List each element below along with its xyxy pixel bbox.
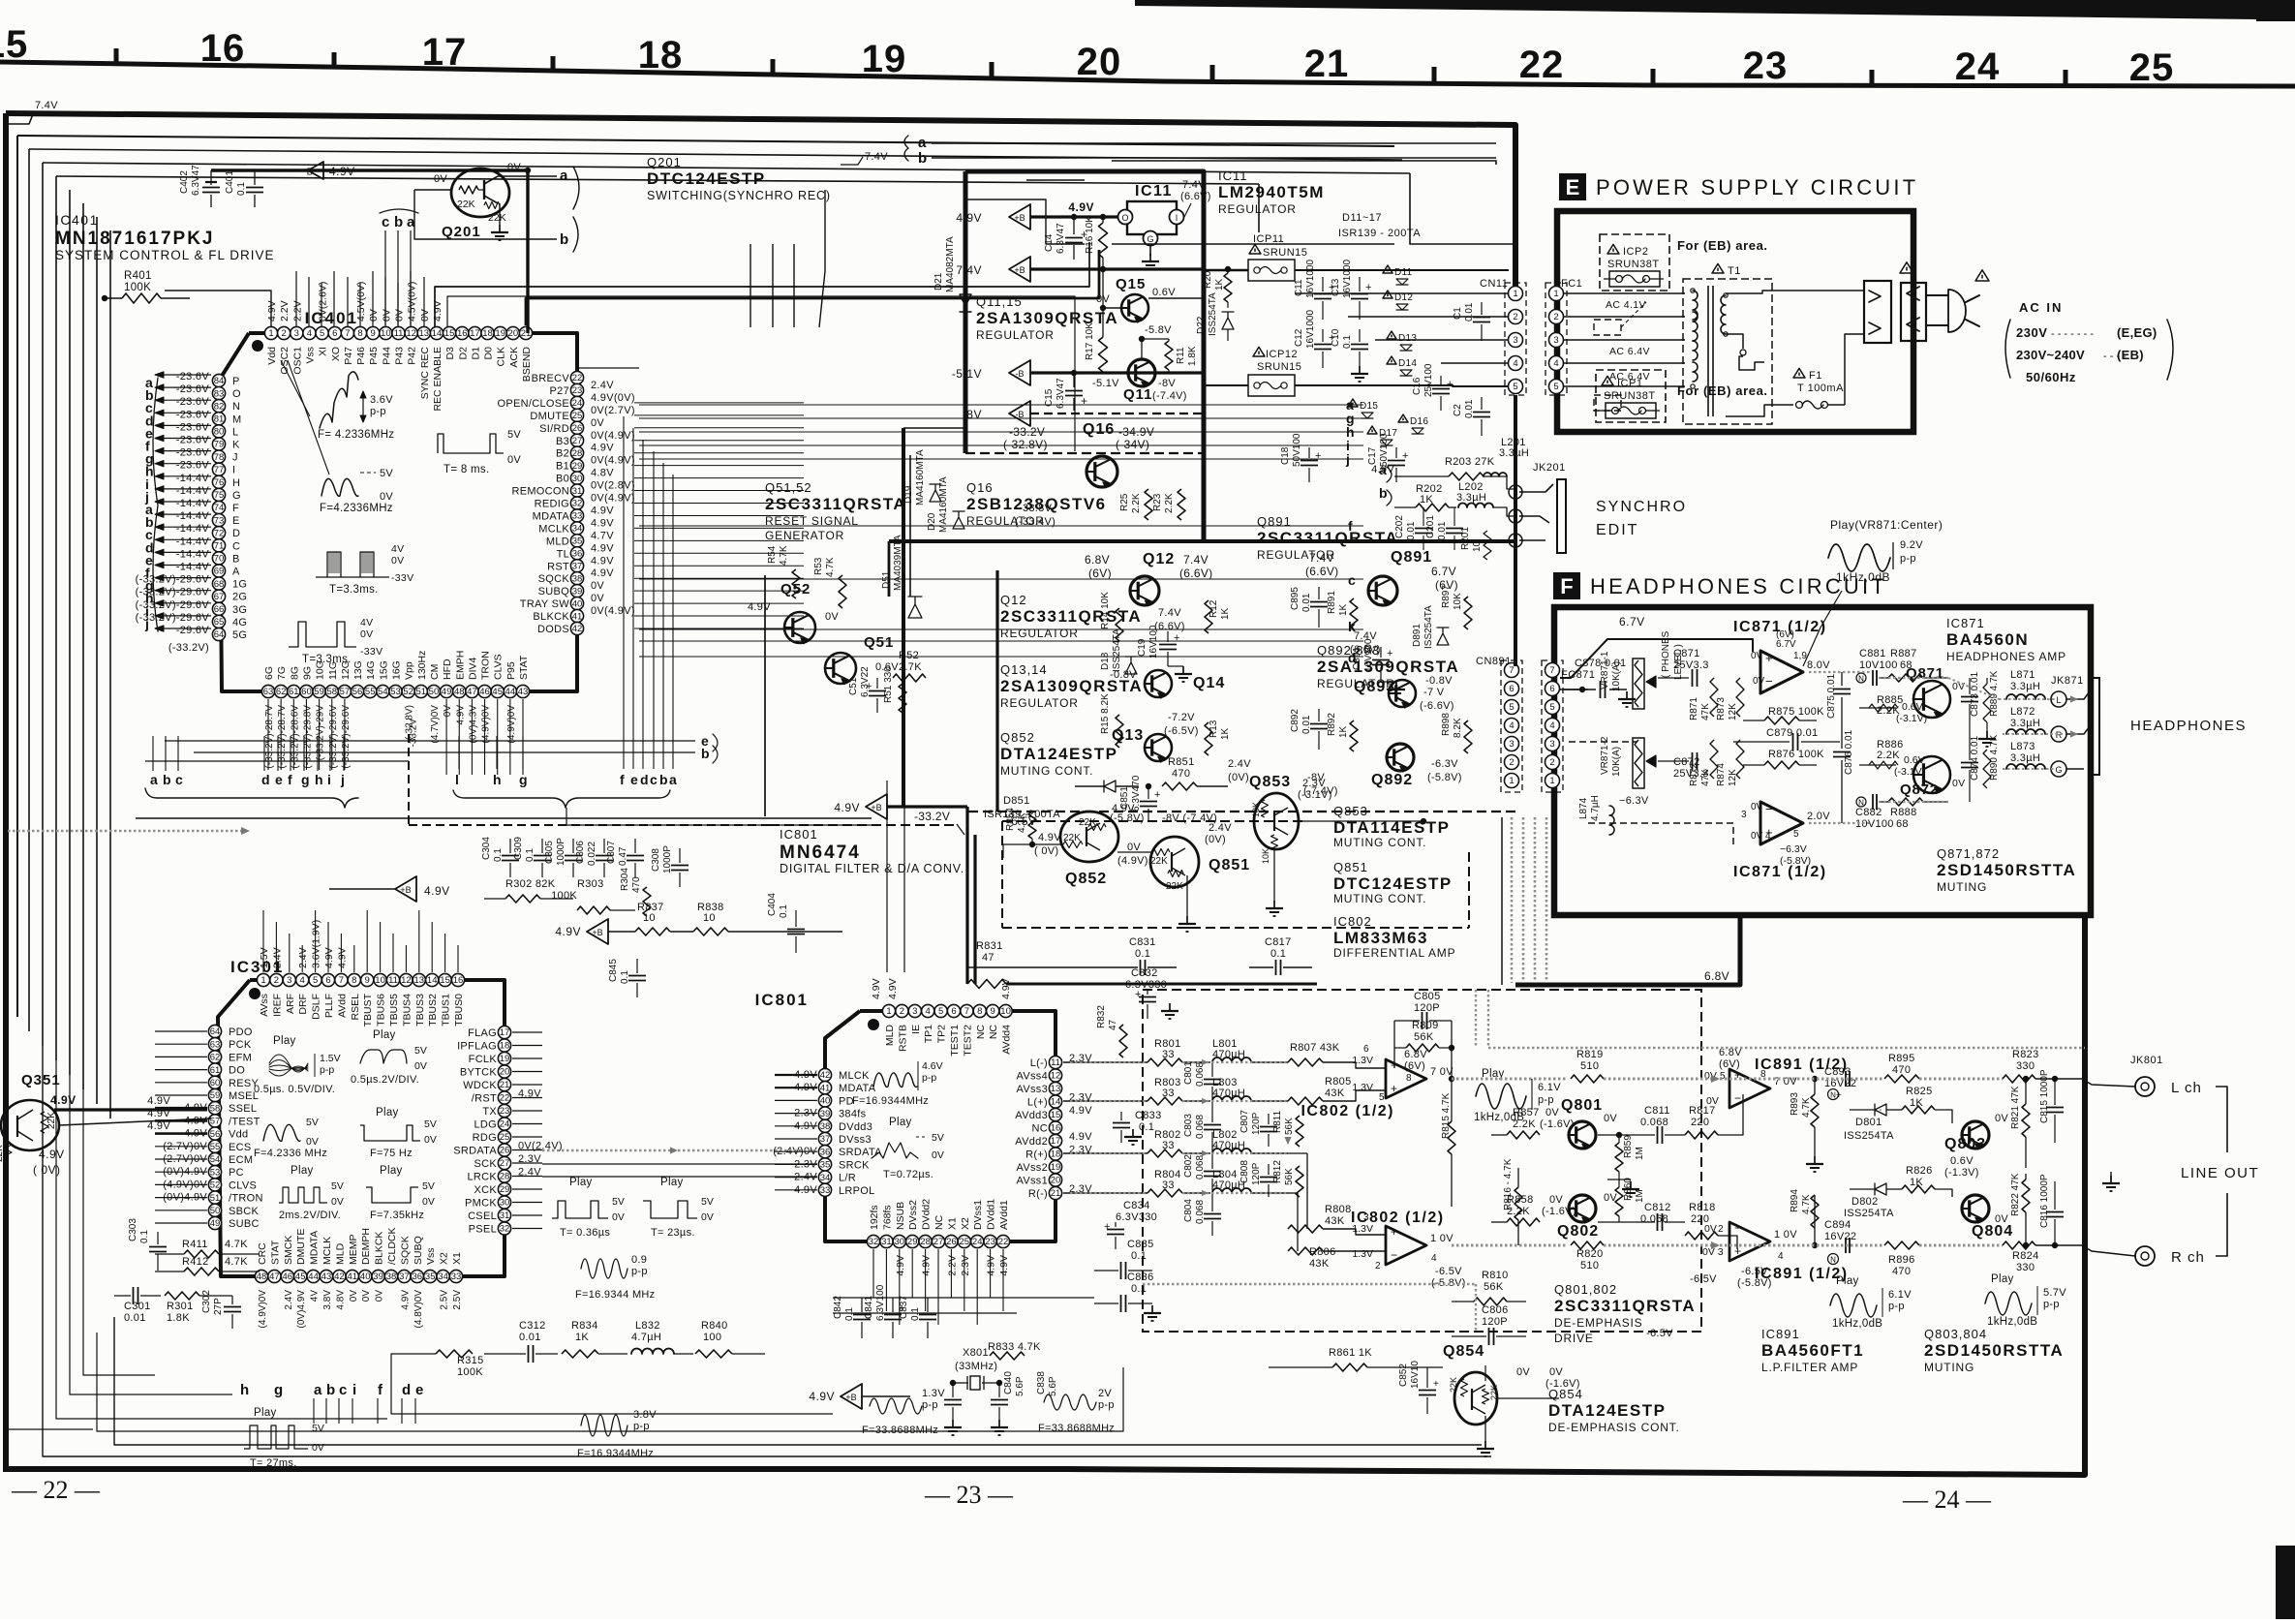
svg-text:5V: 5V [380,468,393,479]
svg-text:17: 17 [500,1027,510,1038]
svg-text:b: b [918,150,927,167]
svg-text:5V: 5V [612,1196,625,1208]
svg-text:55: 55 [365,687,376,697]
svg-text:R894: R894 [1790,1189,1800,1212]
svg-text:10K(A): 10K(A) [1611,661,1622,691]
svg-text:NC: NC [933,1214,945,1230]
svg-text:- - - - - - -: - - - - - - - [2051,328,2094,340]
svg-text:Play: Play [380,1165,403,1177]
svg-text:/CLDCK: /CLDCK [386,1227,398,1265]
svg-text:IC891: IC891 [1761,1327,1800,1341]
IC401 waveform sawtooth 4.2336MHz [320,372,358,428]
svg-text:MA4082MTA: MA4082MTA [945,236,956,292]
svg-text:F=4.2336 MHz: F=4.2336 MHz [254,1148,327,1159]
svg-text:3.3µH: 3.3µH [1499,447,1529,459]
svg-text:R876 100K: R876 100K [1768,749,1824,760]
svg-text:17: 17 [1051,1136,1061,1147]
svg-text:R887: R887 [1890,648,1917,659]
svg-text:C312: C312 [519,1320,546,1332]
svg-text:C873 0.01: C873 0.01 [1970,671,1980,717]
svg-text:0V: 0V [591,593,604,604]
svg-text:WDCK: WDCK [463,1080,497,1091]
svg-text:41: 41 [820,1083,831,1093]
svg-text:61: 61 [210,1065,221,1076]
svg-text:B0: B0 [556,474,569,485]
svg-text:LRCK: LRCK [467,1172,497,1183]
svg-text:Q891: Q891 [1257,514,1292,529]
svg-text:5: 5 [1549,702,1554,713]
svg-text:Play: Play [1991,1273,2014,1285]
svg-text:-7 V: -7 V [1423,687,1445,698]
svg-text:-14.4V: -14.4V [176,536,210,547]
svg-text:R811: R811 [1272,1110,1283,1133]
svg-text:R14 10K: R14 10K [1100,592,1111,629]
svg-text:-14.4V: -14.4V [176,562,210,573]
svg-text:D0: D0 [483,347,495,360]
svg-text:0.6V: 0.6V [1152,287,1176,298]
svg-text:30: 30 [572,474,583,484]
gnd between line jacks [2110,1172,2112,1180]
IC401 top pins [264,326,277,339]
svg-text:TX: TX [482,1106,497,1118]
svg-text:14: 14 [432,328,443,339]
fuse ICP12 [1253,347,1265,356]
svg-text:(-3.1V): (-3.1V) [1298,789,1332,801]
svg-text:10: 10 [375,975,385,986]
svg-text:2SD1450RSTTA: 2SD1450RSTTA [1924,1341,2064,1360]
svg-text:(4.9V)0V: (4.9V)0V [258,1290,268,1329]
op-amp IC891 top [1729,1069,1770,1108]
thermal switch [1739,356,1764,370]
svg-text:0V: 0V [1753,676,1765,687]
svg-text:R302 82K: R302 82K [505,878,556,890]
svg-text:2.4V: 2.4V [284,1290,294,1310]
svg-text:-14.4V: -14.4V [176,498,210,509]
svg-text:B1: B1 [556,461,569,473]
svg-text:D22: D22 [1196,316,1207,334]
svg-text:Vss: Vss [425,1247,437,1265]
svg-text:R809: R809 [1412,1020,1439,1031]
svg-text:R ch: R ch [2171,1249,2205,1266]
svg-text:SYNC REC: SYNC REC [419,347,431,400]
svg-text:13: 13 [419,328,430,339]
svg-text:O: O [1121,213,1128,223]
svg-text:470: 470 [631,876,642,893]
diode D13 [1387,331,1396,339]
svg-text:43: 43 [518,687,529,697]
svg-text:15: 15 [444,328,455,339]
svg-text:1M: 1M [1635,1147,1645,1160]
svg-text:1M: 1M [1635,1189,1645,1203]
svg-text:REGULATOR: REGULATOR [1000,627,1079,640]
svg-text:6.7V: 6.7V [1776,639,1796,650]
small dashed relay box upper [1594,320,1621,335]
svg-text:4.7µH: 4.7µH [631,1332,661,1343]
svg-text:LM2940T5M: LM2940T5M [1218,183,1325,201]
wires a b to regulators [1112,161,1496,165]
svg-text:−: − [1391,1058,1397,1072]
svg-text:N: N [1830,1091,1836,1100]
svg-text:1: 1 [1553,289,1558,299]
svg-text:19: 19 [1051,1162,1061,1173]
svg-text:0V: 0V [361,1290,372,1302]
svg-text:2: 2 [1718,1224,1724,1235]
svg-text:16V1000: 16V1000 [1305,310,1316,349]
svg-text:36: 36 [413,1272,423,1282]
svg-text:0.5µs.2V/DIV.: 0.5µs.2V/DIV. [351,1074,419,1086]
svg-text:C842: C842 [833,1296,843,1319]
diode D12 [1383,291,1392,298]
svg-text:D891: D891 [1412,624,1423,647]
svg-text:— 24 —: — 24 — [1902,1486,1992,1514]
svg-text:1 0V: 1 0V [1430,1233,1453,1244]
svg-text:For (EB) area.: For (EB) area. [1677,238,1768,253]
svg-text:80: 80 [214,427,225,438]
wire IC401 pin21 to Q201 bus [526,250,1099,325]
svg-text:0V: 0V [1704,1223,1717,1235]
svg-text:j: j [144,616,149,631]
svg-text:3.6V(1.9V): 3.6V(1.9V) [311,920,322,968]
svg-text:l: l [455,772,459,787]
svg-text:0V: 0V [306,1136,319,1148]
svg-text:43: 43 [321,1272,332,1282]
svg-text:NC: NC [975,1025,987,1040]
svg-text:e: e [630,772,638,787]
svg-text:4: 4 [300,975,305,986]
svg-text:L871: L871 [2010,669,2035,681]
svg-text:0V: 0V [1751,651,1763,661]
svg-text:AVss1: AVss1 [1017,1176,1048,1187]
svg-text:0.6V: 0.6V [1950,1155,1974,1167]
svg-text:4.7K: 4.7K [1801,1097,1812,1118]
svg-text:4.9V: 4.9V [591,555,614,567]
svg-text:R831: R831 [976,940,1003,952]
svg-text:13: 13 [414,975,425,986]
svg-text:N: N [1830,1256,1836,1265]
svg-text:XI: XI [318,347,329,356]
svg-text:0V(2.6V): 0V(2.6V) [318,282,329,322]
IC401 bottom pins [261,685,274,697]
svg-text:61: 61 [289,687,299,697]
svg-text:(6.6V): (6.6V) [1179,567,1212,580]
svg-text:27P: 27P [213,1298,224,1315]
svg-text:C: C [232,540,240,552]
svg-text:(-1.3V): (-1.3V) [1944,1167,1979,1179]
svg-text:R20: R20 [1203,270,1213,289]
svg-text:-0.8V: -0.8V [1425,675,1453,687]
svg-text:SSEL: SSEL [229,1103,257,1115]
left vertical bus wires lower [96,217,98,1104]
svg-text:C801: C801 [1183,1061,1194,1085]
svg-text:Q12: Q12 [1143,551,1175,567]
svg-text:5V: 5V [424,1118,437,1130]
svg-text:IC11: IC11 [1218,169,1248,183]
svg-text:32: 32 [869,1237,879,1247]
thick rail headphones bottom [1515,917,1740,985]
svg-text:-8V: -8V [963,408,982,421]
section E title [1559,173,1586,200]
svg-text:HEADPHONES: HEADPHONES [2130,718,2247,734]
svg-text:15: 15 [1051,1110,1061,1120]
svg-text:45: 45 [295,1272,306,1282]
svg-text:−: − [1765,802,1773,816]
svg-text:Q852: Q852 [1065,871,1107,887]
svg-text:MDATA: MDATA [839,1083,876,1094]
svg-text:+: + [1836,1090,1842,1101]
svg-text:Q13: Q13 [1112,727,1144,744]
svg-text:4.9V: 4.9V [591,505,614,516]
svg-text:(33MHz): (33MHz) [955,1361,997,1372]
svg-text:4.9V: 4.9V [147,1120,170,1132]
svg-text:(6.6V): (6.6V) [1305,565,1338,578]
svg-text:+: + [1433,1379,1439,1390]
svg-text:15: 15 [0,23,28,66]
svg-text:DVss3: DVss3 [839,1134,872,1146]
svg-text:0.068: 0.068 [1640,1213,1668,1225]
svg-text:Q801: Q801 [1561,1097,1603,1114]
svg-text:(-33.2V)-28.6V: (-33.2V)-28.6V [290,705,300,769]
svg-text:SRUN38T: SRUN38T [1607,259,1660,270]
svg-text:7: 7 [1509,665,1514,676]
svg-text:R52: R52 [899,650,919,661]
IC301 waveform sine 4.2336 [263,1124,300,1141]
svg-text:4.9V: 4.9V [323,947,335,968]
svg-text:0.01: 0.01 [1464,302,1475,322]
svg-text:DE-EMPHASIS: DE-EMPHASIS [1554,1316,1642,1330]
svg-text:+B: +B [400,885,411,895]
svg-text:RDG: RDG [473,1132,497,1144]
power wires to transformer [1564,292,1685,294]
svg-text:TBUS0: TBUS0 [453,994,465,1026]
svg-text:IC871: IC871 [1946,616,1985,630]
svg-text:0V: 0V [701,1211,714,1223]
svg-text:IE: IE [910,1025,922,1034]
svg-text:4.9V: 4.9V [1038,832,1061,843]
close wires top right of IC401 [577,367,639,369]
svg-text:6.3V47: 6.3V47 [1056,378,1066,409]
svg-text:TRAY SW: TRAY SW [520,598,570,610]
ruler line [0,62,2295,86]
svg-text:(-6.6V): (-6.6V) [1420,700,1454,712]
vertical wires from letter rows down [152,736,154,771]
svg-text:+: + [1081,394,1087,408]
svg-text:R872: R872 [1689,763,1699,786]
svg-text:0.1: 0.1 [1135,948,1150,960]
svg-text:DIV4: DIV4 [467,657,478,680]
svg-text:53: 53 [390,687,401,697]
svg-text:X2: X2 [439,1252,450,1265]
svg-text:64: 64 [214,629,225,640]
svg-text:R815 4.7K: R815 4.7K [1441,1092,1452,1139]
svg-text:2.3V: 2.3V [960,1255,971,1276]
svg-text:(4.9V)0V: (4.9V)0V [506,705,517,744]
svg-text:22: 22 [998,1237,1009,1247]
svg-text:+: + [1154,789,1160,801]
svg-text:DMUTE: DMUTE [295,1229,307,1265]
svg-text:40: 40 [572,598,583,609]
svg-text:ECS: ECS [229,1142,252,1153]
svg-text:p-p: p-p [1098,1399,1115,1411]
svg-text:0V: 0V [331,1196,344,1208]
svg-text:4.9V: 4.9V [998,1255,1010,1276]
svg-text:29: 29 [500,1184,510,1195]
svg-text:7.4V: 7.4V [956,263,982,277]
svg-text:2.4V: 2.4V [271,947,283,968]
svg-text:330: 330 [2016,1060,2035,1072]
svg-text:4.9V(0V): 4.9V(0V) [591,392,635,404]
svg-text:+: + [1104,1221,1110,1233]
svg-text:1K: 1K [575,1332,589,1343]
svg-text:52: 52 [210,1180,221,1191]
svg-text:2SD1450RSTTA: 2SD1450RSTTA [1937,861,2076,879]
svg-text:22K: 22K [457,199,475,210]
svg-text:41: 41 [572,611,583,622]
svg-text:B3: B3 [556,436,569,447]
svg-text:4G: 4G [232,617,247,628]
svg-text:ARF: ARF [285,994,296,1014]
svg-text:1: 1 [886,1006,891,1017]
svg-text:0V: 0V [1706,1095,1719,1107]
vertical fan to letters fedcba [623,416,625,769]
wire 7.4V right segment [1258,184,1260,232]
stipple feedback columns [1475,990,1477,1048]
svg-text:34: 34 [820,1173,831,1183]
svg-text:ISS254TA: ISS254TA [1844,1130,1894,1142]
svg-text:2V: 2V [1098,1388,1112,1399]
svg-text:T=3.3ms.: T=3.3ms. [329,584,379,596]
svg-text:0.01: 0.01 [519,1332,541,1343]
svg-text:TL: TL [557,548,569,560]
svg-text:4.9V: 4.9V [1371,464,1394,475]
svg-text:T= 0.36µs: T= 0.36µs [560,1227,610,1239]
svg-text:10K: 10K [1261,848,1270,864]
svg-text:R823: R823 [2012,1049,2039,1060]
svg-text:L(-): L(-) [1030,1057,1048,1069]
svg-text:p-p: p-p [631,1266,648,1277]
svg-text:AVss2: AVss2 [1017,1162,1048,1174]
svg-text:EMPH: EMPH [454,651,466,680]
svg-text:/TRON: /TRON [229,1193,263,1205]
fuse ICP1 symbol [1606,403,1656,418]
svg-text:67: 67 [214,592,225,602]
svg-text:22K: 22K [488,212,506,224]
svg-text:MA4160MTA: MA4160MTA [938,476,949,533]
svg-text:CLK: CLK [496,347,507,366]
svg-text:RSTB: RSTB [897,1025,908,1052]
svg-text:C815 1000P: C815 1000P [2039,1069,2050,1123]
svg-text:DRIVE: DRIVE [1554,1332,1594,1345]
svg-text:Q871: Q871 [1906,665,1944,682]
svg-text:R23: R23 [1152,493,1163,511]
transistor Q12 [1130,576,1159,605]
svg-text:AC 6.4V: AC 6.4V [1609,346,1650,357]
svg-text:R53: R53 [813,557,824,575]
bus wire y845 [136,817,872,819]
svg-text:16V10: 16V10 [1410,1361,1421,1389]
svg-text:(-6.5V): (-6.5V) [1164,725,1199,737]
svg-text:C307: C307 [606,841,617,864]
svg-text:65: 65 [214,617,225,628]
svg-text:C816 1000P: C816 1000P [2039,1174,2050,1228]
svg-text:46: 46 [283,1272,293,1282]
svg-text:32: 32 [500,1224,510,1235]
svg-text:C882: C882 [1855,807,1882,818]
svg-text:0.068: 0.068 [1195,1200,1206,1224]
svg-text:9: 9 [371,328,376,339]
svg-text:9G: 9G [301,666,313,680]
svg-text:DTC124ESTP: DTC124ESTP [647,169,766,188]
svg-text:0V(4.9V): 0V(4.9V) [591,430,635,442]
svg-text:384fs: 384fs [839,1109,867,1120]
svg-text:C895: C895 [1290,587,1300,610]
svg-text:Q851: Q851 [1333,860,1368,874]
svg-text:R826: R826 [1906,1165,1933,1177]
svg-text:BA4560FT1: BA4560FT1 [1761,1341,1864,1360]
svg-text:MUTING: MUTING [1924,1361,1974,1374]
svg-text:23: 23 [500,1106,510,1117]
svg-text:Q351: Q351 [21,1072,61,1088]
IC401 bottom wire drops [267,699,269,770]
svg-text:14: 14 [1051,1097,1061,1108]
svg-text:6.3V47: 6.3V47 [191,165,201,196]
svg-text:16: 16 [457,328,468,339]
svg-text:p-p: p-p [320,1064,334,1076]
svg-text:(-1.6V): (-1.6V) [1545,1378,1580,1390]
svg-text:b: b [659,772,668,787]
svg-text:2.2K: 2.2K [1513,1118,1536,1130]
svg-text:TBUS6: TBUS6 [376,994,387,1026]
svg-text:7 0V: 7 0V [1430,1066,1453,1078]
svg-text:DTC124ESTP: DTC124ESTP [1333,874,1453,893]
transformer output wires [1726,291,1803,293]
svg-text:15G: 15G [378,660,389,680]
svg-text:470: 470 [1892,1266,1911,1277]
svg-text:L: L [2056,695,2061,705]
svg-text:6.7V: 6.7V [1619,615,1645,628]
svg-text:R858: R858 [1507,1194,1534,1206]
svg-text:C404: C404 [767,893,778,916]
svg-text:7.4V: 7.4V [1182,179,1206,191]
svg-text:BRECV: BRECV [532,373,570,384]
svg-text:C837: C837 [899,1296,909,1319]
svg-text:20: 20 [1077,41,1122,83]
svg-text:43K: 43K [1309,1258,1330,1270]
svg-text:0V(4.9V): 0V(4.9V) [591,493,635,505]
svg-text:P45: P45 [368,347,380,365]
svg-text:2: 2 [274,975,279,986]
IC301 body outline [218,980,505,1276]
svg-text:R890 4.7K: R890 4.7K [1989,734,2000,781]
svg-text:DIGITAL FILTER & D/A CONV.: DIGITAL FILTER & D/A CONV. [780,862,964,875]
svg-text:D16: D16 [1410,416,1428,427]
svg-text:(0V): (0V) [1205,834,1226,845]
svg-text:21: 21 [1051,1188,1061,1199]
svg-text:4.9V: 4.9V [887,978,899,999]
svg-text:0V 4: 0V 4 [1751,831,1771,842]
svg-text:IREF: IREF [271,994,283,1017]
svg-text:0.01: 0.01 [1464,399,1475,418]
svg-text:4.5V(0V): 4.5V(0V) [355,282,367,322]
svg-text:AVdd3: AVdd3 [1015,1110,1048,1121]
svg-text:C401: C401 [225,170,235,194]
svg-text:L.P.FILTER AMP: L.P.FILTER AMP [1761,1361,1858,1374]
section F title [1553,572,1580,599]
svg-text:70: 70 [214,554,225,565]
svg-text:C309: C309 [513,837,524,860]
svg-text:5V: 5V [507,429,521,441]
svg-text:16V1000: 16V1000 [1305,260,1316,298]
svg-text:0.01: 0.01 [1406,521,1417,540]
